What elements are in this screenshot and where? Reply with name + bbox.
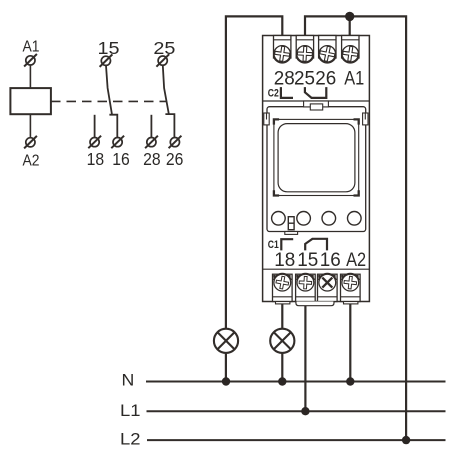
contact line 28 (150, 115, 152, 137)
wire A1 to coil (29, 65, 31, 88)
svg-text:26: 26 (166, 149, 184, 169)
C2 changeover 25-26 (305, 87, 326, 98)
svg-text:25: 25 (153, 38, 175, 58)
junction dot N A2 (346, 377, 354, 385)
wire coil to A2 (29, 114, 31, 138)
C1 bracket 18 (281, 239, 293, 250)
junction dot L1 (301, 407, 309, 415)
foot under terminal A2 (344, 302, 358, 304)
latch right (363, 113, 368, 125)
svg-text:28: 28 (143, 149, 161, 169)
contact corner 16 (109, 115, 117, 138)
svg-text:18: 18 (87, 149, 105, 169)
terminal block 25 top (296, 36, 313, 59)
terminal block 26 top (319, 36, 336, 59)
foot under terminal 18 (276, 302, 290, 304)
screw 26 top (319, 45, 337, 63)
wire top-left run to terminal 28 and lamp E1 (226, 16, 282, 381)
wire top-right run 25 to L2 drop (305, 16, 406, 440)
svg-text:L1: L1 (120, 402, 141, 420)
button 3 (322, 212, 336, 226)
terminal A1 (24, 54, 37, 67)
terminal 28 (145, 136, 158, 149)
svg-text:A2: A2 (346, 250, 366, 271)
lamp E2 (270, 329, 294, 353)
svg-text:25: 25 (294, 69, 315, 90)
terminal block 18 bottom (273, 274, 293, 301)
separator above bottom terminals (263, 268, 370, 270)
terminal block A1 top (342, 36, 359, 59)
switch blade 15 (106, 66, 112, 115)
contact corner 26 (165, 114, 174, 137)
C1 changeover 15-16 (305, 239, 327, 251)
DIN clip notch (310, 104, 322, 110)
contact line 18 (94, 115, 96, 137)
terminal 16 (111, 136, 124, 149)
L1 line (147, 410, 446, 412)
terminal 25 (156, 54, 169, 66)
svg-text:15: 15 (297, 250, 318, 271)
svg-text:A2: A2 (23, 152, 40, 169)
junction dot N lamp E1 (222, 377, 230, 385)
screw 28 top (274, 45, 291, 63)
dashed actuation link (51, 100, 167, 102)
terminal block 16 bottom (318, 274, 338, 301)
switch blade 25 (163, 65, 169, 114)
svg-text:16: 16 (112, 149, 130, 169)
wire A1 drop (349, 16, 351, 39)
svg-text:26: 26 (315, 69, 336, 90)
terminal 26 (169, 136, 182, 149)
screw A1 top (342, 45, 359, 63)
terminal block 28 top (274, 36, 291, 59)
junction dot L2 (402, 436, 410, 444)
wire 18 to lamp E2 (281, 301, 283, 382)
svg-text:C2: C2 (268, 88, 279, 100)
svg-text:18: 18 (274, 250, 295, 271)
button 4 (348, 212, 362, 226)
terminal 15 (100, 54, 113, 67)
svg-text:A1: A1 (344, 69, 364, 90)
relay coil K1 (10, 88, 51, 114)
panel bottom tab (285, 232, 298, 235)
junction dot A1 top (345, 12, 354, 21)
svg-text:A1: A1 (23, 39, 40, 56)
svg-text:N: N (122, 372, 135, 390)
svg-text:15: 15 (98, 38, 120, 58)
front panel (267, 107, 366, 232)
wire A2 to N (349, 301, 351, 382)
slide switch (288, 217, 294, 230)
junction dot N lamp E2 (278, 377, 286, 385)
terminal block 15 bottom (296, 274, 316, 301)
button 2 (297, 212, 311, 226)
timer device outline (263, 36, 370, 302)
terminal block A2 bottom (341, 274, 361, 301)
screw 18 bottom (274, 273, 292, 291)
screw A2 bottom (342, 273, 360, 291)
LCD screen (278, 124, 355, 192)
terminal 18 (88, 136, 101, 149)
svg-text:28: 28 (274, 69, 295, 90)
DIN clip tab top (304, 101, 329, 107)
latch left (264, 113, 269, 125)
LCD bezel (274, 119, 359, 195)
svg-text:16: 16 (320, 250, 341, 271)
svg-text:L2: L2 (120, 431, 141, 449)
button 1 (272, 212, 286, 226)
screw 16 bottom (319, 273, 337, 291)
separator below top labels (263, 100, 370, 102)
terminal A2 (24, 136, 37, 149)
lamp E1 (214, 329, 238, 353)
screw 25 top (296, 46, 313, 63)
screw 15 bottom (297, 273, 315, 291)
L2 line (147, 439, 446, 441)
N line (146, 381, 446, 383)
DIN tray bottom (296, 302, 334, 306)
C2 bracket 28 (281, 87, 293, 98)
wire 15 to L1 (304, 301, 306, 411)
